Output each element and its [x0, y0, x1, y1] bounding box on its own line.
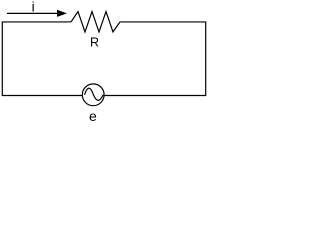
svg-text:i: i	[32, 0, 35, 15]
current arrow i	[7, 12, 63, 14]
wire: top-right + right + bottom-right	[104, 22, 205, 96]
svg-text:e: e	[89, 108, 97, 124]
AC source e	[82, 84, 104, 106]
wire: top-left + left + bottom-left	[2, 22, 82, 96]
resistor R	[71, 12, 120, 32]
svg-text:R: R	[90, 36, 99, 50]
